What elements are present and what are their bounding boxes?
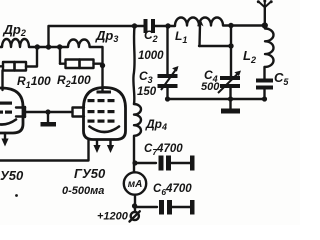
svg-text:мА: мА [128, 179, 143, 190]
svg-text:C74700: C74700 [144, 143, 183, 157]
svg-text:ГУ50: ГУ50 [74, 166, 106, 181]
svg-text:R2100: R2100 [57, 73, 91, 89]
svg-text:C64700: C64700 [153, 183, 192, 197]
svg-text:У50: У50 [0, 168, 24, 183]
svg-text:1000: 1000 [138, 50, 164, 62]
svg-text:500: 500 [201, 81, 220, 93]
svg-text:+1200: +1200 [97, 211, 129, 223]
svg-text:0-500ма: 0-500ма [62, 185, 104, 197]
svg-text:R1100: R1100 [17, 74, 51, 90]
svg-text:150: 150 [137, 86, 157, 98]
